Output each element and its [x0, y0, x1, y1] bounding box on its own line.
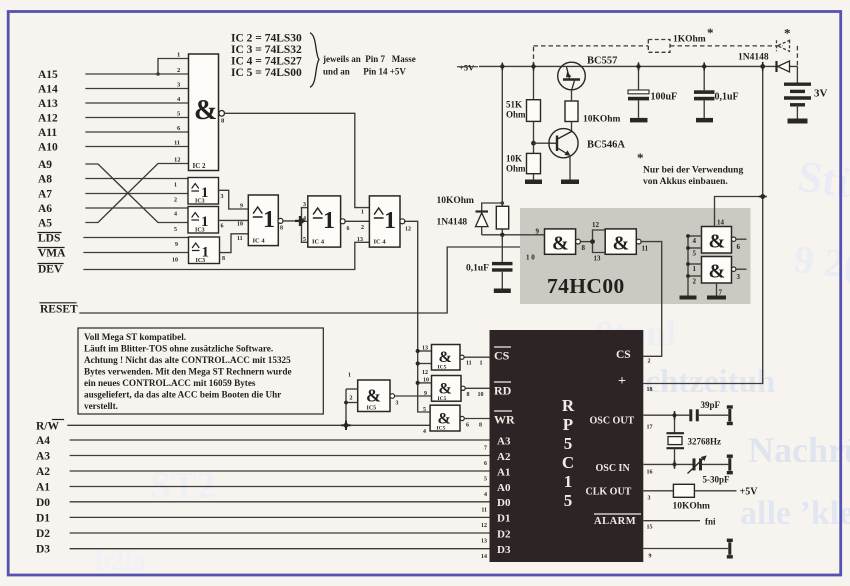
- wire gate2 out to chip CS pin 2: [641, 242, 662, 357]
- svg-text:R: R: [562, 396, 575, 415]
- spare gate pin labels: [693, 219, 741, 297]
- svg-text:Läuft im Blitter-TOS ohne zusä: Läuft im Blitter-TOS ohne zusätzliche So…: [84, 343, 273, 353]
- label +5V supply: [457, 63, 478, 73]
- svg-text:8: 8: [582, 244, 586, 252]
- IC4c pin labels: [357, 210, 411, 244]
- wire A15 to pin 1 bracket: [158, 59, 189, 75]
- svg-text:1: 1: [263, 207, 275, 233]
- wire IC5a out to IC5c pin 9: [395, 395, 432, 397]
- chip pin numbers (right): [647, 359, 653, 560]
- svg-text:IC3: IC3: [196, 258, 206, 264]
- svg-text:1N4148: 1N4148: [437, 218, 468, 228]
- svg-text:6: 6: [347, 226, 350, 232]
- svg-text:D0: D0: [497, 497, 511, 509]
- node terminal (pin 9): [727, 539, 733, 559]
- svg-text:1: 1: [480, 361, 483, 367]
- svg-text:ALARM: ALARM: [594, 516, 636, 527]
- svg-text:0,1uF: 0,1uF: [715, 92, 739, 103]
- svg-text:100uF: 100uF: [651, 92, 678, 103]
- svg-text:5: 5: [564, 491, 573, 510]
- svg-text:4: 4: [484, 492, 487, 498]
- OR gate IC3a: [188, 178, 219, 205]
- signal labels A15..DEV: [38, 69, 66, 276]
- wire IC3c out to IC4a pin 11: [220, 234, 249, 253]
- wire OSC IN pin 16: [643, 463, 692, 465]
- ground (BC546A emitter): [561, 180, 579, 185]
- svg-text:P: P: [563, 415, 573, 434]
- svg-text:8: 8: [280, 226, 283, 232]
- svg-text:14: 14: [481, 554, 487, 560]
- svg-text:10KOhm: 10KOhm: [437, 196, 475, 206]
- svg-text:IC 2: IC 2: [193, 162, 207, 170]
- svg-text:A8: A8: [38, 174, 52, 186]
- battery 3V: [784, 66, 828, 118]
- svg-text:8: 8: [479, 423, 482, 429]
- svg-text:+: +: [618, 374, 626, 389]
- wire A15: [86, 73, 189, 75]
- svg-text:4: 4: [423, 429, 426, 435]
- NAND gate IC5a (R/W inverter): [358, 380, 395, 412]
- svg-text:Bytes verwenden. Mit den Mega: Bytes verwenden. Mit den Mega ST Rechner…: [84, 366, 292, 376]
- svg-text:8: 8: [222, 256, 225, 262]
- svg-text:2: 2: [361, 225, 364, 231]
- svg-text:&: &: [439, 381, 452, 398]
- svg-text:b2la: b2la: [95, 546, 146, 577]
- IC5a pin labels: [348, 373, 399, 407]
- transistor Q1 BC557: [558, 56, 618, 90]
- svg-text:D2: D2: [36, 528, 50, 540]
- svg-text:A14: A14: [38, 84, 58, 96]
- svg-text:2: 2: [177, 67, 180, 74]
- IC2 pin numbers: [174, 52, 181, 164]
- wire pull-up node to gate pin 9: [482, 229, 545, 237]
- svg-text:IC 4: IC 4: [253, 238, 266, 245]
- NAND gate IC5b (CS): [432, 345, 465, 371]
- svg-text:13: 13: [481, 539, 487, 545]
- 74HC00 shaded block: [520, 208, 751, 304]
- wire battery to chip + pin: [643, 66, 762, 383]
- note: jeweils an Pin 7 Masse / und an Pin 14 +5V: [322, 54, 416, 77]
- svg-text:CLK OUT: CLK OUT: [586, 486, 632, 497]
- diode 1N4148 (pull-up clamp): [437, 201, 505, 235]
- wire R/W: [68, 424, 430, 426]
- svg-text:4: 4: [174, 212, 177, 218]
- NAND gate 74HC00-3 (spare): [702, 227, 747, 254]
- wire VMA: [84, 252, 189, 254]
- svg-text:C: C: [562, 453, 574, 472]
- svg-text:alle ’kle: alle ’kle: [740, 495, 850, 532]
- svg-text:2: 2: [693, 278, 697, 286]
- svg-text:51K: 51K: [506, 100, 522, 110]
- svg-text:IC 5 = 74LS00: IC 5 = 74LS00: [231, 67, 302, 79]
- svg-text:fni: fni: [705, 517, 716, 527]
- svg-text:+5V: +5V: [459, 63, 475, 73]
- ground (0.1uF): [696, 118, 713, 123]
- svg-text:IC3: IC3: [195, 199, 205, 205]
- svg-text:IC5: IC5: [438, 396, 447, 402]
- NAND gate 74HC00-1: [545, 229, 581, 255]
- svg-text:11: 11: [481, 507, 487, 513]
- wire IC4a out to IC4b inputs: [283, 220, 302, 222]
- svg-text:jeweils an Pin 7 Masse: jeweils an Pin 7 Masse: [322, 54, 416, 64]
- svg-text:3: 3: [648, 496, 651, 502]
- wire ALARM pin 15: [643, 520, 700, 522]
- svg-text:A7: A7: [38, 189, 52, 201]
- svg-text:Ohm: Ohm: [506, 164, 526, 174]
- svg-text:11: 11: [174, 140, 180, 147]
- svg-text:Voll Mega ST kompatibel.: Voll Mega ST kompatibel.: [84, 332, 186, 342]
- wire A9 crossover to IC3b: [86, 164, 189, 223]
- svg-text:A15: A15: [38, 69, 58, 81]
- junction rail taps: [500, 64, 504, 68]
- svg-text:5-30pF: 5-30pF: [703, 475, 731, 485]
- capacitor 100uF: [628, 66, 677, 118]
- svg-text:D3: D3: [36, 544, 50, 556]
- svg-text:3: 3: [303, 202, 306, 208]
- svg-text:von Akkus einbauen.: von Akkus einbauen.: [643, 177, 728, 187]
- capacitor 0.1uF: [694, 66, 739, 118]
- resistor 10KOhm (base): [565, 90, 621, 132]
- svg-text:1: 1: [693, 265, 697, 273]
- note: compatibility text box: [78, 328, 323, 414]
- svg-text:D1: D1: [36, 512, 50, 524]
- junction IC4a out: [299, 218, 304, 223]
- svg-text:11: 11: [466, 361, 472, 367]
- svg-text:9: 9: [424, 391, 427, 397]
- svg-text:IC 4 = 74LS27: IC 4 = 74LS27: [231, 56, 302, 68]
- 74HC00-2 pin labels: [592, 221, 649, 263]
- svg-text:CS: CS: [616, 349, 631, 361]
- NOR gate IC4c: [369, 196, 405, 247]
- wire IC2 output to IC4c pin 1: [225, 113, 370, 207]
- svg-text:1 0: 1 0: [526, 254, 535, 262]
- svg-text:14: 14: [717, 219, 725, 227]
- svg-text:10KOhm: 10KOhm: [673, 502, 711, 512]
- svg-text:5: 5: [174, 227, 177, 233]
- wire CLK OUT pin 3: [643, 490, 673, 492]
- svg-text:&: &: [366, 386, 381, 406]
- wire A8: [86, 178, 189, 180]
- svg-text:9: 9: [175, 242, 178, 248]
- node terminal (39pF): [727, 405, 733, 425]
- chip pin numbers (left): [481, 446, 487, 561]
- wire IC5d out to chip WR pin 8: [464, 418, 489, 420]
- svg-text:A2: A2: [497, 451, 511, 463]
- svg-text:13: 13: [357, 237, 363, 243]
- IC4b pin labels: [303, 202, 350, 243]
- svg-text:ein neues CONTROL.ACC mit 1605: ein neues CONTROL.ACC mit 16059 Bytes: [84, 378, 256, 388]
- svg-text:10: 10: [172, 258, 178, 264]
- svg-text:&: &: [552, 233, 569, 255]
- svg-text:2: 2: [174, 198, 177, 204]
- svg-text:2: 2: [350, 396, 353, 402]
- wire A13: [86, 102, 189, 104]
- ground (spare inputs): [680, 296, 697, 300]
- junction tick marks: [502, 62, 767, 469]
- note: Akku hint: [637, 150, 743, 187]
- capacitor 5-30pF trimmer: [688, 456, 731, 485]
- svg-text:IC 2 = 74LS30: IC 2 = 74LS30: [231, 33, 302, 45]
- diode (dashed, optional): [777, 40, 790, 51]
- wire A11: [86, 131, 189, 133]
- svg-text:1: 1: [174, 183, 177, 189]
- svg-text:3: 3: [396, 401, 399, 407]
- svg-text:A1: A1: [36, 482, 50, 494]
- svg-text:2: 2: [648, 359, 651, 365]
- svg-text:Nur bei der Verwendung: Nur bei der Verwendung: [643, 166, 743, 176]
- crystal 32768Hz: [667, 415, 722, 464]
- wire +5V rail: [479, 65, 797, 67]
- svg-text:und an Pin 14 +5V: und an Pin 14 +5V: [323, 67, 406, 77]
- NAND gate IC5c (RD): [432, 376, 466, 403]
- svg-text:A3: A3: [36, 451, 50, 463]
- svg-text:7: 7: [719, 289, 723, 297]
- svg-text:10KOhm: 10KOhm: [583, 115, 621, 125]
- node select feed taps: [418, 351, 432, 383]
- svg-text:OSC OUT: OSC OUT: [590, 416, 635, 427]
- wire A7: [86, 193, 189, 195]
- junction R/W tap: [344, 423, 349, 428]
- svg-text:&: &: [194, 95, 217, 126]
- note: brace: [311, 33, 320, 87]
- svg-text:1: 1: [177, 52, 180, 59]
- svg-text:39pF: 39pF: [701, 400, 721, 410]
- svg-text:A4: A4: [36, 435, 50, 447]
- svg-text:4: 4: [693, 237, 697, 245]
- node IC4b input bracket: [302, 208, 308, 243]
- svg-text:A3: A3: [497, 435, 511, 447]
- bus wires A4..D3: [70, 440, 490, 549]
- wire divider to BC546A base: [534, 142, 550, 144]
- svg-text:A13: A13: [38, 98, 58, 110]
- IC5d pin labels: [423, 407, 482, 435]
- svg-text:Nachrüst: Nachrüst: [748, 430, 850, 470]
- svg-text:12: 12: [422, 370, 428, 376]
- junction crystal bottom: [673, 462, 677, 466]
- transistor Q2 BC546A: [549, 129, 625, 180]
- IC3b pin labels: [174, 212, 224, 234]
- svg-text:12: 12: [405, 227, 411, 233]
- svg-text:10: 10: [237, 222, 243, 228]
- diode 1N4148 (battery isolation): [738, 53, 790, 73]
- junction divider node: [531, 141, 536, 146]
- resistor 51K Ohm: [506, 66, 541, 121]
- svg-text:A9: A9: [38, 159, 52, 171]
- svg-text:3: 3: [737, 273, 741, 281]
- svg-text:IC 4: IC 4: [312, 239, 325, 246]
- svg-text:5: 5: [693, 250, 697, 258]
- wire A14: [86, 88, 189, 90]
- svg-text:IC5: IC5: [438, 365, 447, 371]
- IC U1 RP5C15: [490, 330, 644, 562]
- svg-text:BC557: BC557: [587, 56, 617, 67]
- wire OSC OUT pin 17: [643, 414, 689, 416]
- svg-text:IC 3 = 74LS32: IC 3 = 74LS32: [231, 44, 302, 56]
- wire IC5b out to chip CS pin 1: [464, 356, 489, 358]
- svg-text:IC5: IC5: [437, 426, 446, 432]
- svg-text:RD: RD: [494, 384, 512, 398]
- wire IC3a out to IC4a pin 9: [219, 190, 249, 209]
- OR gate IC3b: [188, 207, 219, 234]
- svg-text:9: 9: [240, 204, 243, 210]
- bus labels A4..D3: [36, 435, 50, 556]
- IC5c pin labels: [423, 378, 484, 399]
- wire dashed 1KOhm branch: [534, 46, 798, 67]
- svg-text:1: 1: [361, 210, 364, 216]
- svg-text:Achtung ! Nicht das alte CONTR: Achtung ! Nicht das alte CONTROL.ACC mit…: [84, 355, 291, 365]
- svg-text:Ohm: Ohm: [506, 110, 526, 120]
- svg-text:3: 3: [221, 194, 224, 200]
- svg-text:5: 5: [303, 237, 306, 243]
- IC3c pin labels: [172, 242, 225, 264]
- svg-text:A2: A2: [36, 466, 50, 478]
- svg-text:5: 5: [564, 434, 573, 453]
- resistor 10KOhm (CLK OUT pull-up): [673, 484, 737, 511]
- node spare-gate input bracket to ground: [688, 236, 702, 296]
- svg-text:13: 13: [422, 346, 428, 352]
- svg-text:&: &: [709, 231, 726, 253]
- wire divider: [533, 121, 535, 153]
- ground (battery): [788, 119, 808, 124]
- svg-text:DEV: DEV: [38, 264, 63, 276]
- svg-text:18: 18: [647, 387, 653, 393]
- wire pin 9: [643, 548, 728, 550]
- junction gate1 out: [590, 239, 595, 244]
- NOR gate IC4a: [248, 195, 283, 246]
- svg-text:VMA: VMA: [38, 248, 66, 260]
- svg-text:1KOhm: 1KOhm: [673, 35, 706, 45]
- svg-text:12: 12: [592, 221, 600, 229]
- svg-text:*: *: [637, 150, 644, 165]
- svg-text:10K: 10K: [506, 154, 522, 164]
- svg-text:RESET: RESET: [40, 304, 78, 316]
- NOR gate IC4b: [308, 196, 346, 247]
- svg-text:A0: A0: [497, 482, 511, 494]
- svg-text:32768Hz: 32768Hz: [688, 437, 722, 447]
- svg-text:&: &: [439, 349, 452, 366]
- resistor 10K Ohm: [506, 153, 541, 179]
- resistor 1KOhm (dashed, optional): [648, 25, 713, 52]
- svg-text:11: 11: [237, 236, 243, 242]
- svg-text:verstellt.: verstellt.: [84, 401, 118, 411]
- wire A12: [86, 117, 189, 119]
- svg-text:1: 1: [384, 208, 396, 234]
- svg-text:15: 15: [647, 525, 653, 531]
- svg-text:IC5: IC5: [367, 406, 377, 412]
- junction battery feed / gate pin14: [760, 194, 765, 199]
- capacitor 0.1uF (reset): [466, 235, 513, 289]
- svg-text:A1: A1: [497, 466, 510, 478]
- svg-text:5: 5: [484, 477, 487, 483]
- svg-text:&: &: [709, 261, 726, 283]
- wire IC5c out to chip RD pin 10: [465, 387, 489, 389]
- svg-text:6: 6: [737, 243, 741, 251]
- NAND gate IC2 74LS30: [189, 54, 226, 171]
- wire DEV: [84, 242, 369, 269]
- IC3a pin labels: [174, 183, 224, 204]
- NAND gate 74HC00-2: [605, 229, 641, 255]
- svg-text:D1: D1: [497, 513, 510, 525]
- svg-text:10: 10: [478, 392, 484, 398]
- ground (reset cap): [494, 289, 511, 294]
- svg-text:CS: CS: [494, 349, 510, 363]
- svg-text:IC3: IC3: [195, 228, 205, 234]
- svg-text:A11: A11: [38, 127, 57, 139]
- svg-text:A12: A12: [38, 113, 58, 125]
- svg-text:A10: A10: [38, 142, 58, 154]
- wire A10: [86, 146, 189, 148]
- wire gate1 out to gate2 inputs: [580, 241, 592, 243]
- svg-text:6: 6: [221, 224, 224, 230]
- svg-text:9: 9: [649, 554, 652, 560]
- svg-text:13: 13: [594, 255, 602, 263]
- svg-text:12: 12: [174, 157, 181, 164]
- svg-text:16: 16: [647, 470, 653, 476]
- svg-text:&: &: [613, 233, 630, 255]
- svg-text:11: 11: [642, 245, 649, 253]
- wire IC4c out to IC5 gates: [405, 221, 431, 412]
- svg-text:*: *: [707, 25, 714, 40]
- junction cross R/W tap: [341, 421, 350, 430]
- svg-text:IC 4: IC 4: [374, 239, 387, 246]
- svg-text:1: 1: [564, 472, 573, 491]
- wire IC4b out to IC4c pin 2: [345, 220, 369, 222]
- node terminal (trimmer): [727, 455, 733, 475]
- junction crystal top: [673, 413, 677, 417]
- ground (pin 7): [707, 283, 726, 300]
- svg-text:OSC IN: OSC IN: [596, 463, 631, 474]
- resistor 10KOhm pull-up: [437, 66, 509, 229]
- svg-text:1N4148: 1N4148: [738, 53, 769, 63]
- svg-text:WR: WR: [494, 413, 515, 427]
- node gate2 input bracket: [593, 230, 606, 253]
- 74HC00-1 pin labels: [526, 228, 586, 262]
- svg-text:74HC00: 74HC00: [547, 274, 625, 298]
- NAND gate IC5d (WR): [430, 405, 464, 431]
- svg-text:+5V: +5V: [740, 487, 759, 498]
- svg-text:A6: A6: [38, 203, 52, 215]
- svg-text:LDS: LDS: [38, 233, 60, 245]
- junction A15/pin1: [156, 72, 160, 76]
- ground (10K): [525, 180, 542, 185]
- wire RESET: [80, 247, 545, 313]
- OR gate IC3c: [189, 237, 220, 264]
- svg-text:BC546A: BC546A: [587, 140, 625, 151]
- wire IC3b out to IC4a pin 10: [219, 219, 249, 221]
- svg-text:7: 7: [484, 446, 487, 452]
- note: IC type list: [231, 33, 302, 80]
- svg-text:A5: A5: [38, 218, 52, 230]
- svg-text:6: 6: [466, 423, 469, 429]
- wire A6: [86, 207, 189, 209]
- wire A5 crossover to IC2 pin 12: [86, 164, 189, 223]
- svg-text:10: 10: [423, 378, 429, 384]
- svg-text:0,1uF: 0,1uF: [466, 264, 489, 274]
- svg-text:17: 17: [647, 425, 653, 431]
- svg-text:D2: D2: [497, 528, 511, 540]
- svg-text:*: *: [784, 26, 791, 41]
- capacitor 39pF: [689, 400, 728, 421]
- svg-text:5: 5: [423, 407, 426, 413]
- wire pin 14 from battery rail: [715, 197, 763, 227]
- node IC5a tied inputs from R/W: [346, 389, 358, 425]
- svg-text:9: 9: [536, 228, 540, 236]
- junction cross IC4b input: [295, 216, 305, 226]
- ground (100uF): [630, 118, 648, 123]
- wire LDS: [84, 237, 189, 239]
- overlines for LDS VMA DEV: [38, 233, 64, 264]
- svg-text:3V: 3V: [814, 88, 828, 100]
